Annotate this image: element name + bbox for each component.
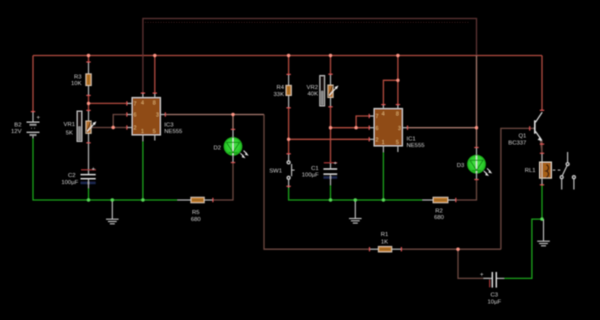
- svg-text:3: 3: [398, 126, 401, 132]
- svg-text:100µF: 100µF: [61, 180, 78, 186]
- svg-text:1K: 1K: [381, 239, 388, 245]
- svg-text:10µF: 10µF: [488, 300, 502, 306]
- wire IC1 pin 7 link: [356, 116, 369, 128]
- junction IC1 pin 7 node: [354, 126, 357, 129]
- wire C1 bottom: [330, 185, 332, 200]
- wire IC3 pin 8 supply: [154, 56, 156, 94]
- svg-text:100µF: 100µF: [302, 173, 319, 179]
- svg-text:D2: D2: [213, 145, 221, 151]
- svg-text:5: 5: [396, 140, 399, 146]
- wire D3 node to LED top: [476, 128, 478, 148]
- resistor R4: [286, 74, 292, 107]
- wire riser to Q1 base: [501, 128, 535, 249]
- ground left: [106, 200, 119, 224]
- svg-text:2: 2: [376, 138, 379, 144]
- svg-text:C3: C3: [491, 293, 499, 299]
- wire IC3 pin 6 link: [113, 115, 127, 128]
- wire node to IC1 pin 2: [289, 138, 370, 140]
- wire node to IC3 pin 7: [89, 102, 127, 104]
- junction ground on right 0V rail: [354, 198, 357, 201]
- capacitor C1: [323, 161, 337, 185]
- junction C3 branch node: [456, 248, 459, 251]
- wire battery positive drop: [32, 56, 34, 112]
- capacitor C2: [81, 143, 97, 188]
- svg-text:R3: R3: [74, 75, 82, 81]
- ground middle: [349, 200, 362, 223]
- svg-text:VR2: VR2: [307, 85, 318, 91]
- op-amp substitute: IC3 NE555 chip: [127, 93, 165, 141]
- svg-text:C2: C2: [68, 173, 76, 179]
- svg-text:1: 1: [141, 129, 144, 135]
- potentiometer VR2: [320, 74, 339, 107]
- junction IC3 pin 8 on V+ rail: [153, 54, 156, 57]
- capacitor C3: [480, 272, 504, 288]
- junction IC1 supply on V+ rail: [396, 54, 399, 57]
- svg-text:6: 6: [376, 126, 379, 132]
- svg-text:4: 4: [382, 112, 385, 118]
- svg-text:IC1: IC1: [407, 137, 416, 143]
- resistor R1: [370, 246, 402, 252]
- wire Q1 emitter to relay coil: [541, 140, 543, 153]
- junction R4 bottom node: [287, 138, 290, 141]
- svg-text:IC3: IC3: [164, 123, 174, 129]
- wire battery negative to 0V rail: [33, 138, 178, 200]
- wire output drop to R1 row: [264, 115, 370, 250]
- wire IC3 pin 3 output: [165, 114, 264, 116]
- svg-text:5K: 5K: [66, 131, 73, 137]
- wire VR2 bottom to node: [330, 107, 332, 128]
- wire IC3 pin 1 to 0V rail: [142, 141, 144, 200]
- junction VR2 top on V+ rail: [329, 54, 332, 57]
- svg-text:+: +: [92, 167, 95, 173]
- IC1 NE555 chip: [369, 105, 407, 152]
- relay RL1 coil: [540, 153, 552, 185]
- svg-text:R5: R5: [192, 210, 200, 216]
- wire V+ rail y=55.5: [33, 55, 542, 57]
- svg-text:5: 5: [153, 129, 156, 135]
- svg-text:680: 680: [191, 217, 202, 223]
- svg-text:2: 2: [134, 126, 137, 132]
- junction relay ground node: [540, 217, 543, 220]
- junction VR1 wiper node: [112, 126, 115, 129]
- svg-text:4: 4: [141, 101, 144, 107]
- wire C3 node down to C3 left: [458, 249, 490, 278]
- junction R3 bottom node: [87, 102, 90, 105]
- svg-text:SW1: SW1: [269, 168, 282, 174]
- battery B2 leads: [32, 112, 34, 122]
- wire VR2 top: [330, 56, 332, 75]
- wire R3 bottom to node: [88, 95, 90, 103]
- svg-text:7: 7: [376, 114, 379, 120]
- svg-text:3: 3: [156, 113, 159, 119]
- wire R3 top: [88, 56, 90, 63]
- wire R4 bottom to SW1 node: [288, 108, 290, 154]
- junction R4 top on V+ rail: [287, 54, 290, 57]
- wire ground node to C3 right: [504, 219, 542, 278]
- wire node to IC1 pin 6: [331, 127, 370, 129]
- svg-text:Q1: Q1: [518, 133, 526, 139]
- svg-text:680: 680: [434, 215, 445, 221]
- wire node to VR1 top: [88, 103, 90, 110]
- svg-text:C1: C1: [311, 166, 319, 172]
- resistor R5: [178, 197, 213, 203]
- wire relay coil to ground node: [541, 185, 543, 219]
- junction ground on 0V rail: [111, 198, 114, 201]
- resistor R3: [86, 62, 92, 95]
- svg-text:+: +: [37, 116, 41, 122]
- battery B2 symbol: [27, 116, 41, 135]
- wire Q1 collector supply drop: [541, 56, 543, 111]
- svg-text:12V: 12V: [11, 129, 22, 135]
- resistor R2: [423, 197, 456, 203]
- svg-text:BC337: BC337: [508, 141, 526, 147]
- junction IC3 pin 1 on 0V rail: [141, 198, 144, 201]
- wire D2 node to LED top: [232, 115, 234, 130]
- component terminal tick marks: [31, 62, 544, 251]
- junction D2 top node: [231, 113, 234, 116]
- junction IC1 pin 4-8 node: [396, 79, 399, 82]
- relay RL1 contact: [560, 152, 575, 190]
- wire R4 top: [288, 56, 290, 75]
- relay RL1 link dashes: [553, 169, 561, 171]
- wire IC1 pin 1 to 0V rail: [382, 152, 384, 200]
- LED D3: [468, 148, 493, 180]
- svg-text:R4: R4: [276, 85, 284, 91]
- svg-text:6: 6: [134, 113, 137, 119]
- wire R1 right to C3 node: [401, 248, 501, 250]
- svg-text:7: 7: [134, 102, 137, 108]
- dotted artifact under top rail: [145, 21, 470, 23]
- svg-text:RL1: RL1: [525, 168, 536, 174]
- wire D2 bottom to R5: [213, 163, 233, 201]
- wire IC1 pin 4 jog: [383, 80, 398, 104]
- svg-text:8: 8: [153, 101, 156, 107]
- potentiometer VR1: [77, 110, 96, 142]
- wire reset bus top rail y=18.5: [143, 19, 477, 94]
- transistor Q1: [535, 112, 543, 153]
- svg-text:VR1: VR1: [64, 122, 75, 128]
- svg-text:B2: B2: [14, 123, 21, 129]
- svg-text:8: 8: [396, 112, 399, 118]
- wire D3 bottom to R2: [456, 180, 477, 201]
- svg-text:+: +: [334, 161, 337, 167]
- wire SW1 bottom to 0V rail: [289, 188, 423, 201]
- svg-text:R1: R1: [381, 232, 389, 238]
- junction C1 on 0V rail: [329, 198, 332, 201]
- ground right: [537, 219, 550, 246]
- svg-text:33K: 33K: [274, 92, 285, 98]
- wire D3 net riser: [476, 56, 478, 128]
- switch SW1: [287, 154, 295, 188]
- svg-text:R2: R2: [435, 208, 443, 214]
- wire node to C1 top: [330, 128, 332, 163]
- junction C2 on 0V rail: [87, 198, 90, 201]
- svg-text:NE555: NE555: [164, 129, 183, 135]
- svg-text:40K: 40K: [308, 92, 319, 98]
- svg-text:D3: D3: [457, 163, 465, 169]
- wire C2 bottom: [88, 188, 90, 200]
- LED D2: [224, 129, 249, 162]
- junction D3 top node: [475, 126, 478, 129]
- junction VR2 bottom node: [329, 126, 332, 129]
- svg-text:1: 1: [382, 140, 385, 146]
- svg-text:10K: 10K: [71, 81, 82, 87]
- wire IC1 pin 8 supply: [397, 56, 399, 105]
- wire IC1 pin 3 to D3 node: [408, 127, 477, 129]
- wire VR1 wiper to IC3 pin 2 and 6: [91, 127, 127, 129]
- junction IC1 pin 1 on 0V rail: [382, 198, 385, 201]
- svg-text:NE555: NE555: [407, 143, 426, 149]
- svg-text:+: +: [480, 272, 484, 278]
- junction R3 top on V+ rail: [87, 54, 90, 57]
